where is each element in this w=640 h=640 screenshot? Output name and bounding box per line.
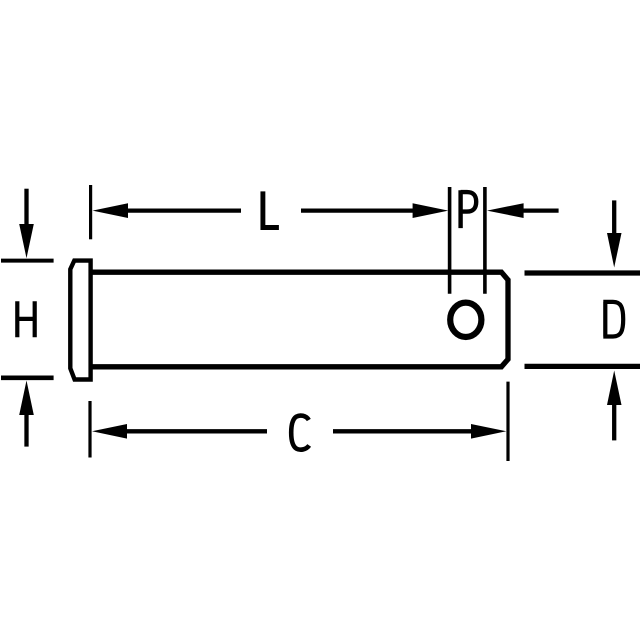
H top arrow shaft: [24, 189, 28, 226]
C dimension line, left segment: [126, 429, 267, 433]
hole near right end: [450, 303, 481, 337]
arrowhead, C left: [92, 424, 127, 439]
extension line, hole right edge (P): [483, 187, 487, 294]
tick line, bottom of H dimension: [1, 375, 54, 380]
C dimension line, right segment: [333, 429, 472, 433]
pin body outline with chamfered right end: [89, 272, 508, 367]
pin head (flanged left end): [70, 261, 90, 380]
tick line, top of H dimension: [1, 259, 54, 263]
P dimension tail line, right side: [523, 208, 559, 212]
extension line, hole left edge (P): [448, 187, 452, 294]
H bottom arrow shaft: [24, 414, 28, 447]
extension line, left of C dimension: [88, 401, 91, 458]
arrowhead, P right: [487, 203, 524, 218]
label C: [291, 416, 309, 450]
arrowhead, C right: [471, 424, 506, 439]
label H: [17, 301, 34, 337]
arrowhead, H bottom (up): [19, 381, 34, 416]
arrowhead, L right / P left: [413, 203, 449, 218]
tick line, bottom of D dimension: [525, 364, 640, 369]
arrowhead, H top (down): [19, 224, 34, 258]
D bottom arrow shaft: [612, 404, 616, 440]
L dimension line, left segment: [127, 208, 241, 212]
tick line, top of D dimension: [525, 270, 640, 275]
arrowhead, L left: [93, 203, 129, 218]
extension line, right of C dimension: [506, 382, 509, 461]
D top arrow shaft: [612, 200, 616, 235]
arrowhead, D top (down): [607, 233, 622, 268]
L dimension line, right segment: [301, 208, 413, 212]
extension line, left of L dimension: [89, 185, 92, 239]
label P: [461, 190, 477, 228]
label L: [263, 191, 279, 227]
label D: [603, 302, 623, 337]
arrowhead, D bottom (up): [607, 371, 622, 406]
